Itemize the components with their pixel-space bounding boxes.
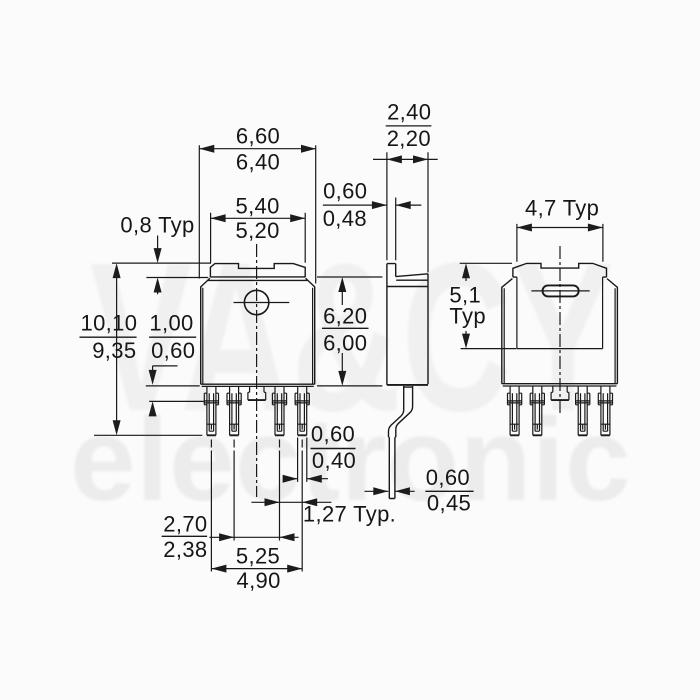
front centerline (256, 244, 258, 497)
svg-text:0,60: 0,60 (311, 421, 355, 446)
extension lines below front leads (211, 440, 302, 572)
back lead 5 (598, 386, 612, 435)
svg-text:6,20: 6,20 (323, 304, 367, 329)
svg-text:9,35: 9,35 (92, 338, 136, 363)
front lead 5 (295, 386, 309, 435)
svg-text:2,38: 2,38 (163, 537, 207, 562)
svg-text:5,40: 5,40 (235, 193, 279, 218)
back slot crosshair (531, 290, 589, 292)
svg-text:6,00: 6,00 (323, 331, 367, 356)
svg-text:Typ: Typ (449, 303, 486, 328)
front body outline (201, 278, 315, 384)
front lead 4 (272, 386, 286, 435)
front lead 1 (204, 386, 218, 435)
side bottom edge (387, 384, 428, 386)
front hole (244, 290, 268, 314)
front shoulder lines (208, 277, 307, 281)
back lead 1 (508, 386, 522, 435)
front middle stub (248, 386, 266, 400)
back tab outline (513, 263, 607, 277)
dimension 2,40/2,20 (373, 100, 438, 273)
svg-text:0,60: 0,60 (426, 465, 470, 490)
back slot (543, 285, 579, 296)
dimension 1,27 Typ. (251, 498, 396, 526)
svg-text:5,20: 5,20 (235, 218, 279, 243)
back tab inner (517, 277, 603, 349)
svg-text:0,40: 0,40 (312, 448, 356, 473)
svg-text:4,90: 4,90 (236, 568, 280, 593)
back body outline (502, 279, 618, 384)
back lead 4 (576, 386, 590, 435)
svg-text:1,27 Typ.: 1,27 Typ. (303, 502, 396, 527)
back inner lines (503, 288, 617, 386)
front tab outline (210, 264, 305, 278)
dimension 5,1 Typ (449, 263, 516, 348)
front body inner lines (202, 288, 314, 387)
dimension 1,00/0,60 (146, 311, 205, 417)
svg-text:2,20: 2,20 (387, 126, 431, 151)
svg-text:0,60: 0,60 (151, 338, 195, 363)
dimension 2,70/2,38 (162, 512, 299, 563)
svg-text:2,70: 2,70 (163, 512, 207, 537)
dimension 0,60/0,45 (365, 465, 474, 516)
svg-text:0,45: 0,45 (427, 491, 471, 516)
dimension 0,8 Typ (112, 212, 211, 294)
svg-text:6,60: 6,60 (236, 124, 280, 149)
side outline (387, 264, 428, 385)
dimension 4,7 Typ (517, 195, 603, 261)
front hole crosshair (234, 302, 290, 304)
svg-text:2,40: 2,40 (387, 100, 431, 125)
dimension 6,20/6,00 (317, 277, 382, 386)
svg-text:0,60: 0,60 (323, 179, 367, 204)
dimension 5,25/4,90 (211, 543, 302, 593)
svg-text:0,8 Typ: 0,8 Typ (120, 212, 194, 237)
svg-text:10,10: 10,10 (80, 311, 137, 336)
dimension 10,10/9,35 (80, 263, 203, 435)
back centerline (559, 246, 561, 416)
back middle stub (551, 386, 569, 400)
svg-text:6,40: 6,40 (236, 149, 280, 174)
side lip (387, 264, 396, 277)
dimension 6,60/6,40 (199, 124, 316, 284)
dimension 5,40/5,20 (211, 193, 306, 262)
front lead 2 (227, 386, 241, 435)
back lead 2 (530, 386, 544, 435)
svg-text:0,48: 0,48 (323, 206, 367, 231)
dimension 0,60/0,40 lead width (283, 421, 357, 482)
side lead (389, 386, 413, 499)
svg-text:1,00: 1,00 (149, 311, 193, 336)
svg-text:5,25: 5,25 (236, 543, 280, 568)
svg-text:4,7 Typ: 4,7 Typ (525, 195, 599, 220)
watermark top (70, 219, 631, 526)
dimension 0,60/0,48 (323, 179, 422, 261)
